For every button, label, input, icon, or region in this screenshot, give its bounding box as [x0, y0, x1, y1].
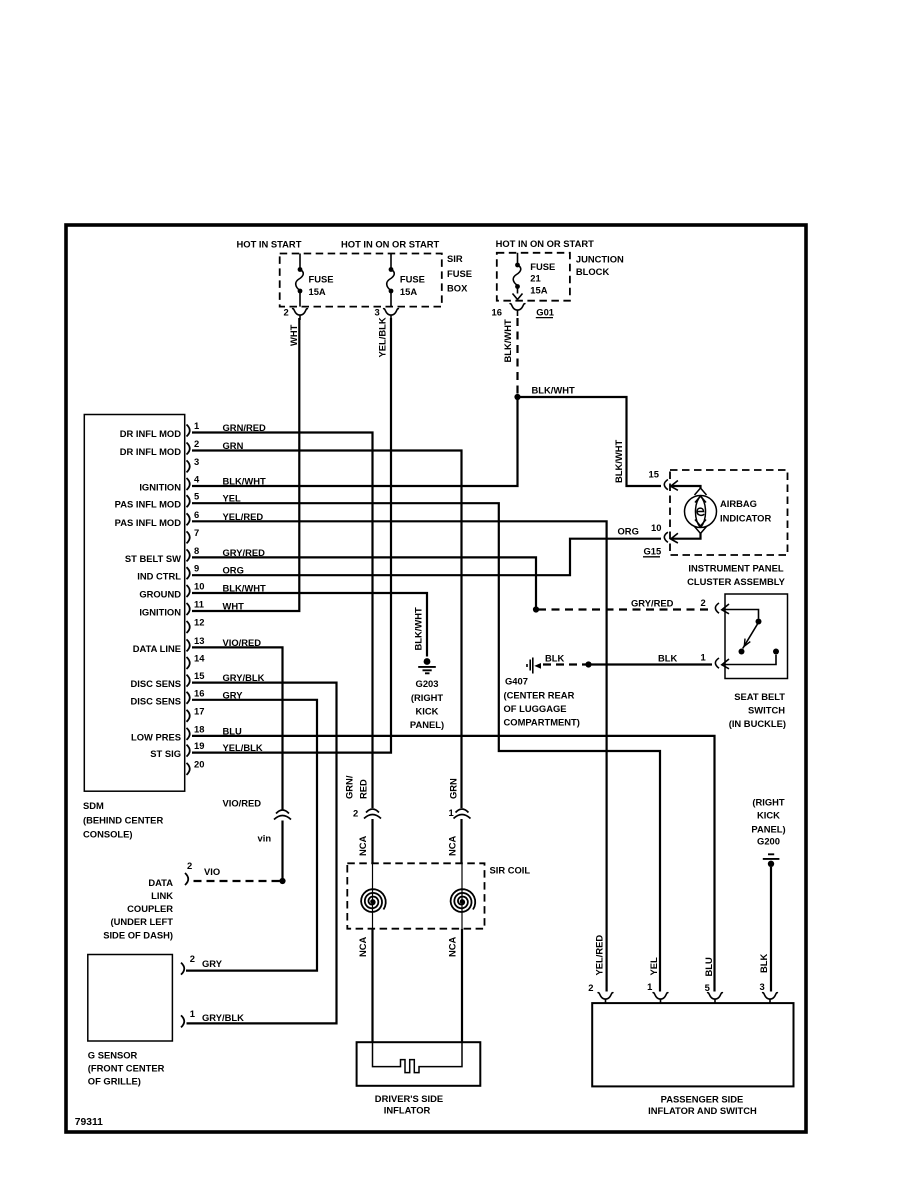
svg-text:GRN/: GRN/	[344, 775, 355, 799]
svg-text:5: 5	[705, 982, 710, 993]
svg-text:2: 2	[194, 438, 199, 449]
svg-text:WHT: WHT	[288, 324, 299, 346]
svg-text:BLK/WHT: BLK/WHT	[223, 476, 266, 487]
svg-text:NCA: NCA	[357, 835, 368, 856]
svg-text:RED: RED	[358, 779, 369, 799]
svg-text:16: 16	[194, 687, 204, 698]
svg-text:IND CTRL: IND CTRL	[137, 571, 181, 582]
svg-text:(BEHIND CENTER: (BEHIND CENTER	[83, 814, 163, 825]
svg-text:GRN: GRN	[223, 440, 244, 451]
svg-text:YEL/RED: YEL/RED	[594, 935, 605, 976]
svg-text:GRY: GRY	[223, 689, 244, 700]
svg-text:VIO: VIO	[204, 866, 220, 877]
svg-text:G203: G203	[416, 678, 439, 689]
svg-text:BOX: BOX	[447, 283, 468, 294]
svg-text:HOT IN ON OR START: HOT IN ON OR START	[496, 238, 595, 249]
svg-text:DISC SENS: DISC SENS	[130, 695, 181, 706]
svg-text:SEAT BELT: SEAT BELT	[734, 691, 785, 702]
svg-text:SIDE OF DASH): SIDE OF DASH)	[103, 929, 173, 940]
svg-text:PANEL): PANEL)	[410, 719, 444, 730]
svg-text:YEL: YEL	[223, 493, 242, 504]
svg-text:NCA: NCA	[357, 936, 368, 957]
svg-text:VIO/RED: VIO/RED	[223, 637, 262, 648]
svg-text:FUSE: FUSE	[530, 261, 555, 272]
svg-text:YEL/RED: YEL/RED	[223, 511, 264, 522]
svg-text:IGNITION: IGNITION	[139, 482, 181, 493]
svg-text:G01: G01	[536, 306, 554, 317]
svg-text:KICK: KICK	[416, 706, 439, 717]
svg-text:GRY: GRY	[202, 958, 223, 969]
svg-text:BLK/WHT: BLK/WHT	[223, 583, 266, 594]
svg-text:PASSENGER SIDE: PASSENGER SIDE	[661, 1093, 744, 1104]
svg-text:BLK: BLK	[545, 653, 564, 664]
svg-text:FUSE: FUSE	[309, 273, 334, 284]
svg-text:8: 8	[194, 545, 199, 556]
svg-text:INDICATOR: INDICATOR	[720, 513, 771, 524]
svg-text:WHT: WHT	[223, 601, 245, 612]
svg-text:YEL/BLK: YEL/BLK	[377, 317, 388, 357]
svg-text:3: 3	[375, 307, 380, 318]
svg-text:DRIVER'S SIDE: DRIVER'S SIDE	[375, 1093, 443, 1104]
svg-text:SIR COIL: SIR COIL	[490, 865, 531, 876]
svg-text:AIRBAG: AIRBAG	[720, 498, 757, 509]
svg-text:2: 2	[190, 953, 195, 964]
svg-text:14: 14	[194, 653, 205, 664]
svg-text:G15: G15	[644, 546, 662, 557]
svg-text:DATA LINE: DATA LINE	[133, 643, 181, 654]
svg-text:1: 1	[190, 1008, 195, 1019]
svg-text:ORG: ORG	[223, 565, 244, 576]
svg-text:GRY/BLK: GRY/BLK	[223, 672, 265, 683]
svg-text:BLK: BLK	[758, 954, 769, 973]
svg-text:G SENSOR: G SENSOR	[88, 1049, 138, 1060]
svg-text:YEL: YEL	[648, 957, 659, 976]
svg-text:(UNDER LEFT: (UNDER LEFT	[111, 916, 174, 927]
svg-text:NCA: NCA	[447, 835, 458, 856]
svg-text:IGNITION: IGNITION	[139, 607, 181, 618]
svg-text:BLK/WHT: BLK/WHT	[613, 440, 624, 483]
svg-text:15A: 15A	[400, 286, 417, 297]
svg-text:CLUSTER ASSEMBLY: CLUSTER ASSEMBLY	[687, 576, 786, 587]
svg-text:ORG: ORG	[618, 526, 639, 537]
svg-text:DR INFL MOD: DR INFL MOD	[120, 428, 182, 439]
svg-text:11: 11	[194, 599, 204, 610]
svg-text:7: 7	[194, 527, 199, 538]
svg-text:DATA: DATA	[148, 877, 173, 888]
svg-text:10: 10	[651, 522, 661, 533]
svg-text:(IN BUCKLE): (IN BUCKLE)	[729, 718, 786, 729]
svg-text:CONSOLE): CONSOLE)	[83, 829, 132, 840]
svg-text:15: 15	[194, 670, 204, 681]
svg-text:21: 21	[530, 273, 540, 284]
svg-text:OF GRILLE): OF GRILLE)	[88, 1076, 141, 1087]
svg-text:NCA: NCA	[447, 936, 458, 957]
svg-text:BLK: BLK	[658, 653, 677, 664]
svg-text:G200: G200	[757, 836, 780, 847]
svg-text:SIR: SIR	[447, 253, 463, 264]
svg-text:4: 4	[194, 474, 200, 485]
svg-text:COMPARTMENT): COMPARTMENT)	[504, 717, 580, 728]
svg-text:HOT IN START: HOT IN START	[237, 239, 302, 250]
svg-text:INFLATOR AND SWITCH: INFLATOR AND SWITCH	[648, 1105, 757, 1116]
svg-text:PAS INFL MOD: PAS INFL MOD	[115, 517, 182, 528]
svg-text:GRN: GRN	[448, 778, 459, 799]
svg-text:KICK: KICK	[757, 810, 780, 821]
svg-text:18: 18	[194, 723, 204, 734]
svg-text:GRY/BLK: GRY/BLK	[202, 1012, 244, 1023]
svg-text:2: 2	[353, 808, 358, 819]
svg-text:2: 2	[701, 597, 706, 608]
svg-text:OF LUGGAGE: OF LUGGAGE	[504, 703, 567, 714]
svg-text:PAS INFL MOD: PAS INFL MOD	[115, 499, 182, 510]
svg-text:JUNCTION: JUNCTION	[576, 254, 624, 265]
svg-text:BLOCK: BLOCK	[576, 266, 610, 277]
svg-text:2: 2	[588, 982, 593, 993]
svg-text:LINK: LINK	[151, 890, 173, 901]
svg-text:G407: G407	[505, 676, 528, 687]
svg-text:BLU: BLU	[223, 725, 242, 736]
svg-text:9: 9	[194, 563, 199, 574]
svg-text:12: 12	[194, 617, 204, 628]
svg-text:INFLATOR: INFLATOR	[384, 1105, 431, 1116]
svg-text:LOW PRES: LOW PRES	[131, 731, 181, 742]
svg-text:15A: 15A	[530, 285, 547, 296]
svg-text:16: 16	[492, 306, 502, 317]
svg-text:GRY/RED: GRY/RED	[631, 598, 674, 609]
svg-text:1: 1	[647, 981, 652, 992]
svg-text:VIO/RED: VIO/RED	[223, 798, 262, 809]
svg-text:GRN/RED: GRN/RED	[223, 422, 266, 433]
svg-text:(RIGHT: (RIGHT	[752, 797, 785, 808]
svg-text:GRY/RED: GRY/RED	[223, 547, 266, 558]
svg-text:2: 2	[284, 307, 289, 318]
svg-text:BLK/WHT: BLK/WHT	[532, 385, 575, 396]
svg-text:(FRONT CENTER: (FRONT CENTER	[88, 1063, 165, 1074]
svg-text:BLU: BLU	[703, 957, 714, 976]
svg-text:COUPLER: COUPLER	[127, 903, 173, 914]
svg-text:vin: vin	[258, 833, 272, 844]
svg-text:17: 17	[194, 705, 204, 716]
svg-text:79311: 79311	[75, 1117, 103, 1128]
svg-text:DISC SENS: DISC SENS	[130, 678, 181, 689]
svg-text:ST SIG: ST SIG	[150, 748, 181, 759]
svg-text:YEL/BLK: YEL/BLK	[223, 742, 263, 753]
svg-text:PANEL): PANEL)	[751, 823, 785, 834]
svg-text:ST BELT SW: ST BELT SW	[125, 553, 181, 564]
svg-text:SDM: SDM	[83, 800, 104, 811]
svg-text:3: 3	[194, 456, 199, 467]
svg-text:INSTRUMENT PANEL: INSTRUMENT PANEL	[688, 563, 783, 574]
svg-text:DR INFL MOD: DR INFL MOD	[120, 446, 182, 457]
svg-text:10: 10	[194, 581, 204, 592]
svg-text:19: 19	[194, 740, 204, 751]
svg-text:13: 13	[194, 635, 204, 646]
svg-text:HOT IN ON OR START: HOT IN ON OR START	[341, 239, 440, 250]
svg-text:SWITCH: SWITCH	[748, 705, 785, 716]
svg-text:FUSE: FUSE	[400, 273, 425, 284]
svg-text:BLK/WHT: BLK/WHT	[502, 319, 513, 362]
svg-text:15A: 15A	[309, 286, 326, 297]
svg-text:BLK/WHT: BLK/WHT	[413, 607, 424, 650]
svg-text:20: 20	[194, 758, 204, 769]
svg-text:1: 1	[701, 652, 706, 663]
svg-text:1: 1	[449, 807, 454, 818]
svg-text:6: 6	[194, 509, 199, 520]
svg-text:3: 3	[760, 981, 765, 992]
svg-text:1: 1	[194, 420, 199, 431]
svg-text:(CENTER REAR: (CENTER REAR	[504, 690, 575, 701]
svg-text:FUSE: FUSE	[447, 268, 472, 279]
svg-text:2: 2	[187, 860, 192, 871]
svg-text:GROUND: GROUND	[139, 589, 181, 600]
svg-text:5: 5	[194, 491, 199, 502]
svg-text:(RIGHT: (RIGHT	[411, 692, 444, 703]
svg-text:15: 15	[649, 469, 659, 480]
